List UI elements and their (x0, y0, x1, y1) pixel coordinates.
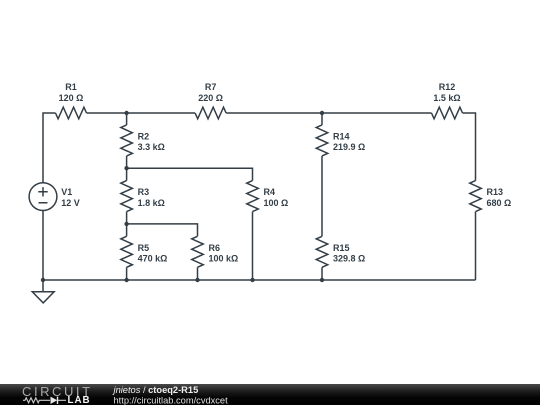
svg-text:LAB: LAB (68, 395, 91, 405)
svg-text:R3: R3 (138, 187, 150, 197)
resistor R13 (470, 181, 482, 212)
resistor R5 (126, 224, 128, 236)
resistor R1 (56, 107, 87, 119)
svg-text:470 kΩ: 470 kΩ (138, 254, 168, 264)
svg-text:R2: R2 (138, 132, 150, 142)
svg-text:219.9 Ω: 219.9 Ω (333, 142, 365, 152)
rail 2: R2 bottom to R4 top (127, 168, 253, 180)
svg-text:R6: R6 (209, 243, 221, 253)
rail 3: R3 bottom to R6 top (127, 224, 198, 236)
svg-text:3.3 kΩ: 3.3 kΩ (138, 142, 165, 152)
svg-text:R15: R15 (333, 243, 350, 253)
svg-text:1.5 kΩ: 1.5 kΩ (433, 93, 460, 103)
svg-text:R7: R7 (205, 82, 217, 92)
wire V1 bottom to ground rail (42, 211, 44, 281)
resistor R15 (316, 236, 328, 267)
svg-text:R1: R1 (65, 82, 77, 92)
svg-text:100 Ω: 100 Ω (264, 198, 289, 208)
svg-text:R13: R13 (487, 187, 504, 197)
resistor R4 (247, 181, 259, 212)
svg-text:100 kΩ: 100 kΩ (209, 254, 239, 264)
svg-text:http://circuitlab.com/cvdxcet: http://circuitlab.com/cvdxcet (114, 395, 229, 405)
node R6-bottom (195, 278, 199, 282)
svg-text:R5: R5 (138, 243, 150, 253)
node R4-bottom (250, 278, 254, 282)
wire R7 to R12 (226, 112, 431, 114)
node R2-top (124, 111, 128, 115)
svg-text:jnietos / ctoeq2-R15: jnietos / ctoeq2-R15 (112, 385, 199, 395)
ground (42, 280, 44, 292)
node R3/R5 (124, 222, 128, 226)
node R2/R3 (124, 166, 128, 170)
node ground-tap (41, 278, 45, 282)
node R14-top (320, 111, 324, 115)
svg-text:1.8 kΩ: 1.8 kΩ (138, 198, 165, 208)
wire bottom rail (43, 279, 476, 281)
svg-text:680 Ω: 680 Ω (487, 198, 512, 208)
node R15-bottom (320, 278, 324, 282)
resistor R7 (195, 107, 226, 119)
svg-text:220 Ω: 220 Ω (198, 93, 223, 103)
resistor R6 (192, 236, 204, 267)
voltage source V1 (29, 183, 57, 211)
svg-text:329.8 Ω: 329.8 Ω (333, 254, 365, 264)
svg-text:V1: V1 (61, 187, 72, 197)
svg-text:R4: R4 (264, 187, 276, 197)
svg-text:R12: R12 (439, 82, 456, 92)
resistor R3 (126, 168, 128, 180)
resistor R2 (126, 113, 128, 125)
wire R1 to R7 (87, 112, 196, 114)
resistor R12 (432, 107, 463, 119)
svg-text:120 Ω: 120 Ω (59, 93, 84, 103)
node R5-bottom (124, 278, 128, 282)
svg-text:12 V: 12 V (61, 198, 80, 208)
wire top rail left segment (V1 top to R1) (43, 113, 56, 183)
svg-text:R14: R14 (333, 132, 350, 142)
wire R12 to right corner down to R13 (463, 113, 476, 181)
resistor R14 (321, 113, 323, 125)
